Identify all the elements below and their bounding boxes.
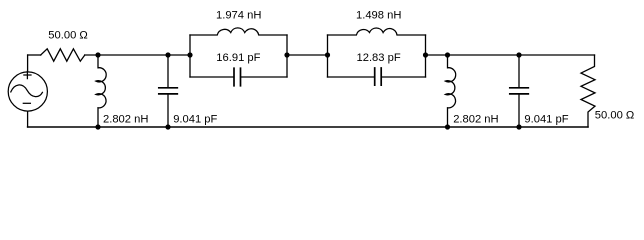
tank 1 box left side (189, 35, 191, 77)
tank 2 top branch with inductor 1.498 nH (328, 28, 426, 35)
capacitor C2 shunt 9.041 pF (518, 55, 520, 127)
node A bottom junction dot (95, 124, 100, 129)
tank 1 box right side (286, 35, 288, 77)
svg-text:9.041 pF: 9.041 pF (524, 113, 568, 125)
svg-text:2.802 nH: 2.802 nH (453, 114, 498, 126)
source V1 circle (8, 72, 47, 111)
svg-text:2.802 nH: 2.802 nH (103, 114, 148, 126)
node C bottom junction dot (445, 124, 450, 129)
tank 2 bottom branch wires (328, 76, 426, 78)
tank 2 capacitor 12.83 pF plates (375, 68, 382, 85)
inductor L1 shunt 2.802 nH (96, 55, 106, 127)
node D junction dot (516, 52, 521, 57)
svg-text:50.00 Ω: 50.00 Ω (48, 29, 87, 41)
tank 1 top branch with inductor 1.974 nH (190, 28, 287, 35)
source sine wave (11, 85, 43, 97)
wire top rail resistor-to-tank1 (85, 54, 190, 56)
tank 2 box left side (327, 35, 329, 77)
tank 1 bottom branch wires (190, 76, 287, 78)
resistor R1 50 ohm series (41, 49, 85, 61)
svg-text:9.041 pF: 9.041 pF (173, 113, 217, 125)
wire tank2 to load corner (426, 54, 595, 56)
node B bottom junction dot (165, 124, 170, 129)
node tank1 left pin dot (187, 52, 192, 57)
node B junction dot (165, 52, 170, 57)
tank 1 capacitor 16.91 pF plates (234, 68, 241, 86)
node tank1 right pin dot (284, 52, 289, 57)
source minus sign (23, 102, 30, 104)
resistor R2 50 ohm load (581, 55, 595, 127)
node C junction dot (445, 52, 450, 57)
wire top rail left (28, 54, 41, 56)
node D bottom junction dot (516, 124, 521, 129)
svg-text:50.00 Ω: 50.00 Ω (595, 110, 634, 122)
source plus sign (24, 71, 31, 78)
node tank2 left pin dot (325, 52, 330, 57)
svg-text:16.91 pF: 16.91 pF (216, 52, 260, 64)
inductor L2 shunt 2.802 nH (445, 55, 455, 127)
wire source bottom stub (27, 111, 29, 127)
node tank2 right pin dot (423, 52, 428, 57)
wire between tank1 and tank2 (287, 54, 328, 56)
node A junction dot (95, 52, 100, 57)
wire bottom rail (28, 126, 588, 128)
svg-text:1.974 nH: 1.974 nH (216, 10, 261, 22)
wire source top stub (27, 55, 29, 72)
tank 2 box right side (425, 35, 427, 77)
svg-text:12.83 pF: 12.83 pF (357, 52, 401, 64)
svg-text:1.498 nH: 1.498 nH (356, 10, 401, 22)
capacitor C1 shunt 9.041 pF (167, 55, 169, 127)
